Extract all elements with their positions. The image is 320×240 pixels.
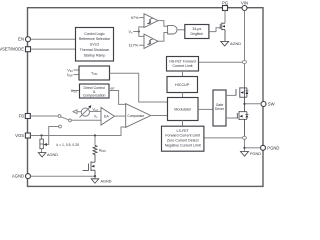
svg-text:EA: EA [104,115,109,119]
switch throw FB terminal [58,115,61,118]
svg-text:PGND: PGND [250,152,261,156]
block modulator [168,98,199,121]
pin AGND [26,174,31,179]
block Ton [79,66,110,80]
pin PGND [261,145,266,150]
AND gate [168,26,177,34]
transistor PG open-drain FET [220,23,225,42]
wire VOS rail [31,127,126,136]
svg-text:k = 1, 0.5, 0.25: k = 1, 0.5, 0.25 [57,143,80,147]
svg-text:VOS: VOS [15,133,24,138]
svg-text:34-µs: 34-µs [192,27,201,31]
wire divider tap to switch throw [45,127,59,145]
wire AGND pin rail [31,175,96,177]
node VIN sense ellipse [242,61,246,64]
wire VSET/MODE to control block [31,48,76,50]
svg-text:RDIS: RDIS [99,148,106,153]
svg-text:Thermal Shutdown: Thermal Shutdown [80,48,109,52]
op-amp EA [101,108,115,126]
wire modulator to gate driver [198,108,213,110]
wire HS current limit sense [199,61,243,63]
pin SW [261,102,266,107]
wire 97% to comparator [139,17,144,19]
wire VOS into direct control [72,90,80,92]
svg-text:Zero Current Detect: Zero Current Detect [167,139,199,143]
svg-text:Reference Selection: Reference Selection [79,37,111,41]
pin FB [25,114,30,119]
node dot VOS divider junction [40,134,42,136]
node dot comparator input [145,17,147,19]
wire hiccup to modulator [182,93,184,98]
block HS-FET current limit [167,57,199,72]
wire DAC to EA vref [90,110,102,112]
switch throw divider terminal [59,125,62,128]
svg-text:Vref: Vref [93,107,98,112]
pin VIN [242,6,247,11]
svg-text:Modulator: Modulator [174,107,192,111]
IC boundary [28,8,264,187]
node dot AGND junction [94,175,96,177]
block gate driver [213,90,226,126]
wire gate driver to HS gate [226,94,236,96]
ground AGND (PG fet) [221,41,229,46]
block hiccup [167,77,198,93]
node SW junction [243,103,245,105]
wire down to divider [41,136,43,140]
wire VIN pin down [244,11,246,61]
node dot VOS rdis junction [94,134,96,136]
wire LS-CL sense [204,137,243,139]
svg-text:Driver: Driver [215,107,225,111]
wire deglitch to PG fet gate [209,28,221,32]
transistor HS-FET [236,87,248,103]
svg-text:Vx: Vx [129,30,134,35]
svg-text:AGND: AGND [12,174,24,179]
comparator (main) [126,104,151,128]
wire Vx node [133,31,139,33]
resistor divider (box style) [40,139,43,149]
wire modulator to LS-CL [182,121,184,127]
comparator PG low (117%) [144,34,158,48]
block deglitch [185,25,209,39]
svg-text:Forward Current Limit: Forward Current Limit [165,134,200,138]
wire PG pin down [224,11,226,24]
svg-text:Control Logic: Control Logic [84,32,105,36]
svg-text:VSET/MODE: VSET/MODE [0,47,24,52]
ground AGND (discharge fet) [94,176,96,179]
transistor discharge FET [83,155,96,177]
wire divider to gnd [41,149,43,153]
svg-text:EN: EN [18,37,24,42]
wire to RDIS [94,136,96,146]
DAC adjust arrow [80,107,90,117]
wire FB to switch [31,115,59,117]
wire ton output to modulator [110,73,168,102]
svg-text:UVLO: UVLO [90,43,100,47]
svg-text:AGND: AGND [230,42,241,46]
svg-text:Gate: Gate [216,103,224,107]
comparator PG high (97%) [144,14,158,28]
svg-text:Negative Current Limit: Negative Current Limit [165,143,201,147]
wire switch pole to EA [71,119,101,121]
svg-text:Startup Ramp: Startup Ramp [84,53,106,57]
node Vx junction [138,30,140,32]
svg-text:LS-FET: LS-FET [177,129,190,133]
svg-text:Deglitch: Deglitch [190,32,203,36]
reference DAC circle [81,108,89,116]
wire PGND junction to pin [245,147,261,149]
resistor RDIS [93,146,97,155]
wire err to comparator [109,91,126,105]
svg-text:117%: 117% [129,44,139,48]
svg-text:SW: SW [268,102,275,107]
svg-text:PGND: PGND [267,145,279,150]
switch pole terminal [69,119,72,122]
svg-text:FB: FB [19,114,25,119]
wire comparator out to modulator [151,115,168,117]
svg-text:AGND: AGND [47,153,58,157]
ground PGND symbol [241,152,249,157]
block LS-FET current limit [162,126,204,151]
wire 117% to comparator [139,44,144,46]
transistor LS-FET [237,104,248,137]
wire HS-CL to hiccup [182,71,184,77]
svg-text:Comparator: Comparator [128,114,146,118]
svg-text:Compensation: Compensation [83,94,106,98]
pin PG [223,6,228,11]
ground AGND (divider) [38,153,46,157]
reference DAC left arrow [73,110,77,114]
svg-text:97%: 97% [131,16,139,20]
svg-text:HICCUP: HICCUP [175,83,190,87]
node LS sense ellipse [242,136,246,139]
svg-text:AGND: AGND [101,180,112,184]
block direct control and compensation [80,84,110,98]
arrowhead tap into divider [43,143,47,146]
wire gate driver to LS gate [226,117,237,119]
pin EN [26,37,31,42]
svg-text:VOS: VOS [71,89,77,94]
block control logic [76,28,114,62]
switch blade [61,117,69,120]
pin VSET/MODE [26,47,31,52]
wire EA out to comparator [115,115,126,117]
wire Vx to comparators [139,27,144,37]
svg-text:Current Limit: Current Limit [172,64,192,68]
svg-text:PG: PG [222,1,228,6]
wire VIN to ton [74,69,80,71]
wire fSW to ton [74,74,80,76]
wire AND to deglitch [178,29,185,31]
node PGND junction [243,147,245,149]
wire comp tips to AND gate [158,21,168,27]
pin VOS [25,133,30,138]
node dot EA input [101,110,103,112]
wire SW to pin [245,103,262,105]
wire EN to control block [31,38,76,40]
svg-text:VIN: VIN [241,1,248,6]
